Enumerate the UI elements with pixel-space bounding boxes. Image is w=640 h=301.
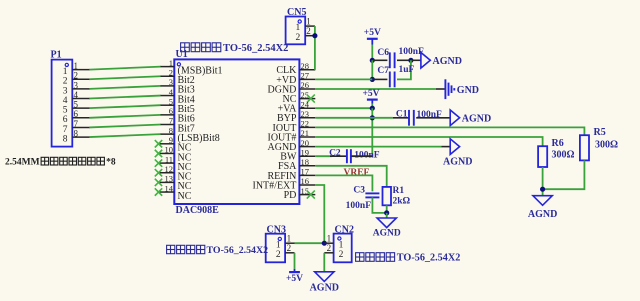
svg-text:11: 11 (165, 154, 173, 164)
svg-text:2: 2 (306, 26, 311, 36)
U1 right pin 25 NC (282, 90, 315, 105)
svg-text:DAC908E: DAC908E (176, 205, 220, 216)
svg-text:1: 1 (327, 234, 332, 244)
U1 right pin 15 PD (284, 186, 316, 201)
wire C7 left lead (372, 78, 387, 80)
svg-text:C2: C2 (329, 149, 341, 159)
wire P1.2 to U1.2 (89, 76, 160, 79)
wire C2 right lead (351, 155, 372, 157)
U1 right pin 20 AGND (268, 138, 316, 153)
wire P1.1 to U1.1 (89, 67, 160, 70)
svg-text:100nF: 100nF (346, 201, 372, 211)
svg-text:8: 8 (169, 125, 173, 135)
svg-text:1: 1 (276, 240, 281, 250)
op IC U1 DAC908E (174, 49, 299, 216)
svg-text:TO-56_2.54X2: TO-56_2.54X2 (223, 43, 288, 54)
svg-text:3: 3 (169, 77, 173, 87)
U1 left pin 14 NC (155, 183, 192, 202)
capacitor C1 100nF (396, 110, 442, 126)
svg-text:10: 10 (165, 145, 174, 155)
svg-text:16: 16 (301, 176, 310, 186)
svg-text:2: 2 (276, 250, 281, 260)
svg-text:C6: C6 (377, 48, 389, 58)
resistor R5 300ohm (580, 127, 618, 160)
label: round-hole socket TO-56_2.54X2 (right) (356, 253, 461, 264)
junction CN5.2 (312, 33, 317, 38)
wire to AGND (411, 59, 421, 61)
svg-text:2: 2 (63, 77, 68, 87)
U1 right pin 24 +VA (278, 99, 316, 114)
svg-text:24: 24 (301, 99, 310, 109)
wire FSA to R1 (315, 166, 386, 187)
wire +5V to +VA row (371, 104, 373, 109)
svg-text:C7: C7 (377, 66, 389, 76)
power +5V (bottom, inverted) (286, 269, 303, 284)
svg-text:26: 26 (301, 80, 310, 90)
ground AGND (pin20) (443, 139, 472, 168)
U1 left pin 11 NC (155, 154, 192, 173)
svg-text:1: 1 (63, 67, 68, 77)
junction +VA (370, 106, 375, 111)
svg-text:*8: *8 (106, 157, 116, 167)
svg-text:1: 1 (287, 234, 292, 244)
svg-text:1: 1 (296, 23, 301, 33)
U1 left pin 6 Bit6 (160, 106, 195, 125)
wire P1.7 to U1.7 (89, 125, 160, 128)
junction C6/AGND (408, 58, 413, 63)
svg-text:2: 2 (287, 243, 292, 253)
capacitor C3 100nF (346, 185, 380, 211)
svg-text:AGND: AGND (462, 113, 491, 124)
U1 right pin 26 DGND (268, 80, 316, 95)
U1 left pin 10 NC (155, 145, 192, 164)
wire +VA row (315, 107, 372, 109)
svg-text:2: 2 (296, 33, 301, 43)
svg-text:3: 3 (63, 86, 68, 96)
label: round-hole socket TO-56_2.54X2 (left) (167, 245, 269, 256)
U1 left pin 5 Bit5 (160, 96, 195, 115)
wire +5V vertical down to C2 (352, 108, 373, 156)
wire C1 right lead (416, 117, 450, 119)
wire CN5 to CLK (314, 26, 316, 70)
svg-text:7: 7 (63, 125, 68, 135)
wire IOUT to R5 (315, 127, 584, 135)
wire R5 bottom (543, 160, 585, 189)
svg-text:PD: PD (284, 190, 297, 201)
svg-text:2: 2 (339, 250, 344, 260)
wire BYP row (315, 117, 393, 119)
svg-text:2: 2 (327, 243, 332, 253)
svg-text:VREF: VREF (344, 168, 370, 178)
U1 right pin 22 IOUT (273, 119, 316, 134)
ground AGND (C6) (421, 53, 462, 69)
svg-text:NC: NC (178, 191, 192, 202)
wire R6 bottom (542, 167, 544, 196)
U1 left pin 13 NC (155, 174, 192, 193)
svg-text:C1: C1 (396, 110, 408, 120)
svg-text:21: 21 (301, 128, 310, 138)
U1 left pin 3 Bit3 (160, 77, 195, 96)
ground GND (earth) (445, 79, 479, 99)
wire IOUT# to R6 (315, 137, 542, 146)
wire C6 left lead (372, 59, 387, 61)
resistor R6 300ohm (538, 138, 574, 167)
U1 right pin 16 INT#/EXT (253, 176, 316, 191)
svg-text:+5V: +5V (364, 28, 381, 38)
svg-text:+5V: +5V (362, 89, 379, 99)
U1 left pin 4 Bit4 (160, 87, 195, 106)
svg-text:TO-56_2.54X2: TO-56_2.54X2 (397, 253, 461, 264)
connector CN2 (324, 224, 354, 262)
junction CN2.1 (322, 241, 327, 246)
wire CN3.1 to CN2.1 (295, 242, 325, 244)
svg-text:U1: U1 (176, 49, 188, 60)
wire INT#/EXT down to CN2 (315, 185, 324, 243)
label: 2.54MM pitch single-row pin header *8 (5, 157, 116, 167)
wire C6 right lead (397, 59, 411, 61)
svg-text:19: 19 (301, 147, 310, 157)
svg-text:AGND: AGND (433, 56, 462, 67)
svg-text:1uF: 1uF (399, 65, 415, 75)
svg-text:7: 7 (169, 116, 173, 126)
ground AGND (R5/R6) (528, 196, 557, 220)
wire R1 bottom (386, 205, 388, 213)
svg-text:AGND: AGND (310, 283, 339, 294)
wire to AGND (386, 213, 388, 218)
ground AGND (R1) (373, 218, 401, 238)
connector CN5 (286, 7, 315, 44)
U1 left pin 8 (LSB)Bit8 (160, 125, 220, 144)
U1 left pin 9 NC (155, 135, 192, 154)
U1 right pin 23 BYP (277, 109, 315, 124)
svg-text:1: 1 (169, 58, 173, 68)
junction R5/R6 (540, 187, 545, 192)
wire DGND row (315, 88, 436, 90)
capacitor C6 100nF (377, 47, 424, 68)
svg-text:1: 1 (339, 240, 344, 250)
wire C6 junction down to C7 (397, 60, 411, 79)
wire P1.6 to U1.6 (89, 115, 160, 118)
ground AGND (C1) (450, 110, 491, 126)
connector P1 (51, 50, 90, 147)
svg-text:R6: R6 (552, 138, 564, 149)
svg-text:GND: GND (457, 85, 479, 96)
svg-text:9: 9 (169, 135, 173, 145)
svg-text:2: 2 (169, 67, 173, 77)
wire P1.3 to U1.3 (89, 86, 160, 89)
U1 right pin 17 REFIN (267, 167, 315, 182)
svg-text:+5V: +5V (286, 274, 303, 284)
wire P1.4 to U1.4 (89, 96, 160, 99)
U1 right pin 19 BW (280, 147, 315, 162)
wire +5V down to +VD row (371, 60, 373, 79)
U1 left pin 2 Bit2 (160, 67, 195, 86)
connector CN3 (266, 225, 295, 263)
svg-text:5: 5 (63, 106, 68, 116)
wire BW row (315, 155, 332, 157)
svg-text:AGND: AGND (528, 209, 557, 220)
svg-text:8: 8 (63, 134, 68, 144)
U1 right pin 21 IOUT# (268, 128, 316, 143)
junction +VD row (370, 77, 375, 82)
svg-text:13: 13 (165, 174, 174, 184)
svg-text:27: 27 (301, 71, 310, 81)
svg-text:AGND: AGND (373, 228, 401, 238)
label: round-hole socket TO-56_2.54X2 (top) (181, 43, 289, 54)
U1 right pin 28 CLK (276, 61, 315, 76)
svg-text:300Ω: 300Ω (595, 140, 618, 151)
wire CN2.2 to AGND (323, 253, 325, 272)
wire REFIN to C3 (315, 175, 372, 191)
U1 left pin 7 Bit7 (160, 116, 195, 135)
svg-text:22: 22 (301, 119, 310, 129)
svg-text:AGND: AGND (443, 157, 472, 168)
svg-text:4: 4 (63, 96, 68, 106)
svg-text:6: 6 (169, 106, 173, 116)
svg-text:20: 20 (301, 138, 310, 148)
svg-text:2kΩ: 2kΩ (393, 196, 411, 206)
svg-text:14: 14 (165, 183, 174, 193)
power +5V (top) (364, 28, 381, 45)
wire CN3.2 to +5V (294, 253, 296, 269)
capacitor C7 1uF (377, 65, 414, 87)
svg-text:TO-56_2.54X2: TO-56_2.54X2 (207, 245, 269, 256)
svg-text:2.54MM: 2.54MM (5, 157, 40, 167)
svg-text:28: 28 (301, 61, 310, 71)
svg-text:17: 17 (301, 167, 310, 177)
capacitor C2 100nF (329, 149, 380, 164)
svg-text:C3: C3 (353, 185, 365, 195)
wire +VD row (315, 78, 372, 80)
power +5V (mid) (362, 89, 379, 103)
U1 left pin 1 (MSB)Bit1 (160, 58, 223, 77)
svg-text:12: 12 (165, 164, 174, 174)
svg-text:18: 18 (301, 157, 310, 167)
svg-text:23: 23 (301, 109, 310, 119)
U1 right pin 18 FSA (278, 157, 315, 172)
svg-text:5: 5 (169, 96, 173, 106)
wire P1.5 to U1.5 (89, 105, 160, 108)
U1 right pin 27 +VD (276, 71, 315, 86)
wire C3 bottom (372, 197, 386, 213)
junction BYP row (370, 115, 375, 120)
svg-text:300Ω: 300Ω (552, 149, 575, 160)
wire P1.8 to U1.8 (89, 134, 160, 137)
junction +5V/C6 (370, 58, 375, 63)
U1 left pin 12 NC (155, 164, 192, 183)
svg-text:6: 6 (63, 115, 68, 125)
wire +5V to C6 row (371, 45, 373, 61)
svg-text:1: 1 (306, 16, 311, 26)
resistor R1 2k (383, 186, 411, 207)
ground AGND (CN2) (310, 272, 339, 294)
svg-text:R1: R1 (393, 186, 405, 196)
wire AGND row (315, 146, 441, 148)
svg-text:R5: R5 (594, 127, 606, 138)
junction R1/C3 (384, 210, 389, 215)
